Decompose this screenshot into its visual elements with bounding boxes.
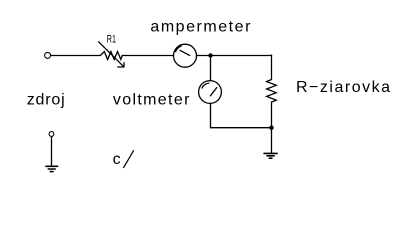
wire: ammeter to right corner bbox=[197, 55, 272, 57]
ground (right) bbox=[264, 153, 277, 158]
wire: voltmeter to bottom rail bbox=[210, 103, 212, 127]
wire: R-ziarovka to bottom junction bbox=[271, 102, 273, 128]
wire: terminal to R1 bbox=[51, 55, 100, 57]
ammeter M1 bbox=[174, 44, 197, 67]
svg-text:ampermeter: ampermeter bbox=[150, 19, 251, 36]
node junction (top) bbox=[208, 53, 212, 57]
svg-text:R1: R1 bbox=[107, 33, 116, 45]
wire: bottom rail bbox=[211, 127, 272, 129]
svg-text:voltmeter: voltmeter bbox=[113, 91, 190, 108]
terminal: zdroj + output bbox=[45, 52, 51, 58]
rheostat arrow shaft bbox=[99, 42, 124, 67]
wire: terminal down to ground bbox=[51, 137, 53, 167]
voltmeter M2 bbox=[199, 81, 222, 104]
rheostat arrowhead bbox=[118, 63, 124, 67]
svg-text:R−ziarovka: R−ziarovka bbox=[296, 79, 390, 96]
node junction (bottom) bbox=[269, 126, 273, 130]
svg-text:zdroj: zdroj bbox=[27, 91, 65, 108]
wire: R1 to ammeter bbox=[122, 55, 173, 57]
svg-text:c: c bbox=[113, 151, 121, 168]
ground (left) bbox=[46, 166, 58, 171]
resistor R1 (rheostat zigzag) bbox=[100, 52, 122, 60]
wire: junction down to voltmeter bbox=[210, 56, 212, 81]
terminal: zdroj ground pin bbox=[49, 132, 54, 137]
wire: junction down to ground bbox=[271, 128, 273, 154]
wire: top corner down to R-ziarovka bbox=[271, 55, 273, 80]
resistor R-ziarovka (vertical zigzag) bbox=[267, 80, 277, 103]
